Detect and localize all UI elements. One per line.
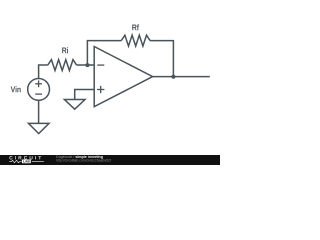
node: output junction — [171, 75, 175, 79]
wire Ri to op-amp inverting input — [77, 64, 95, 66]
voltage source V1 circle — [28, 79, 50, 101]
wire non-inverting input to ground — [75, 90, 95, 100]
label Rf — [132, 24, 139, 30]
wire Vin top to Ri — [39, 65, 48, 78]
voltage source minus sign — [35, 93, 42, 95]
wire Vin bottom to ground — [38, 100, 40, 123]
label Ri — [62, 47, 68, 53]
op-amp U1 — [94, 47, 152, 107]
resistor Rf — [121, 35, 150, 46]
svg-text:http://circuitlab.com/c/e6c26a: http://circuitlab.com/c/e6c26aa0a52f — [56, 159, 111, 163]
label Vin — [11, 86, 21, 92]
wire output — [153, 76, 210, 78]
ground (non-inverting input) — [64, 100, 85, 110]
footer attribution bar — [0, 155, 220, 165]
CircuitLab logo — [0, 0, 220, 165]
voltage source plus sign — [35, 80, 42, 87]
node: inverting input junction — [85, 63, 89, 67]
wire feedback left vertical — [87, 41, 121, 65]
wire feedback top right and right vertical — [150, 41, 173, 77]
resistor Ri — [48, 60, 77, 71]
op-amp minus sign — [97, 64, 104, 66]
footer title text — [56, 155, 111, 163]
op-amp plus sign — [97, 86, 104, 93]
ground (under Vin) — [29, 123, 50, 133]
